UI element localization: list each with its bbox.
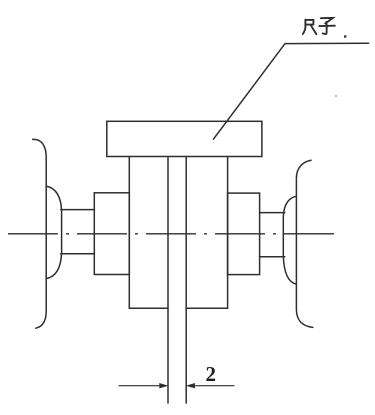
right shaft rectangle xyxy=(260,213,285,257)
dimension line left with arrowhead xyxy=(119,383,168,388)
slot line left xyxy=(167,157,169,404)
central block xyxy=(129,157,227,309)
label text 子 (drawn strokes) xyxy=(319,18,335,34)
left shaft rectangle xyxy=(61,210,95,254)
right wheel break curve xyxy=(296,160,312,327)
svg-text:2: 2 xyxy=(206,362,217,386)
ruler top plate xyxy=(107,121,262,156)
left wheel break curve xyxy=(33,139,47,328)
label text 尺 (drawn strokes) xyxy=(303,20,317,35)
speck artifact xyxy=(335,95,337,97)
dimension line right with arrowhead xyxy=(186,383,234,388)
leader line to ruler label xyxy=(213,43,368,139)
left hub half-ellipse xyxy=(46,186,61,279)
centerline (dash-dot) xyxy=(8,233,335,235)
slot line right xyxy=(185,157,187,404)
right medium block xyxy=(228,193,260,275)
right hub half-ellipse xyxy=(283,196,296,284)
left medium block xyxy=(94,193,129,275)
period dot after label xyxy=(344,35,346,37)
